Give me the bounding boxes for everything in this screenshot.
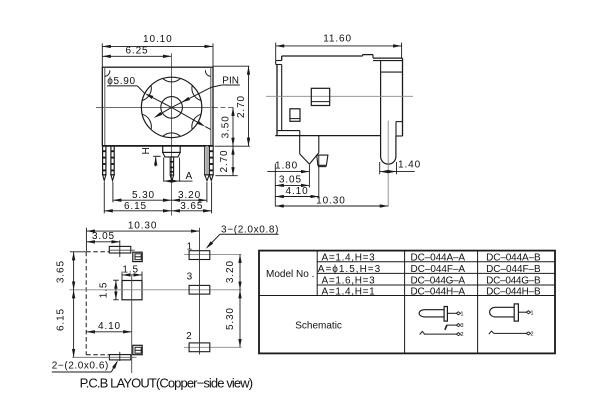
svg-text:3: 3: [460, 323, 464, 329]
svg-text:6.15: 6.15: [55, 308, 66, 331]
svg-text:DC–044G–B: DC–044G–B: [486, 275, 541, 286]
svg-text:3.05: 3.05: [92, 231, 115, 242]
svg-text:P.C.B LAYOUT(Copper−side view): P.C.B LAYOUT(Copper−side view): [80, 375, 254, 390]
svg-text:6.15: 6.15: [124, 201, 147, 212]
svg-text:6.25: 6.25: [125, 46, 148, 57]
svg-text:5.30: 5.30: [225, 307, 236, 330]
svg-text:2.70: 2.70: [236, 95, 247, 118]
svg-text:2: 2: [186, 331, 192, 342]
svg-text:A=1.4,H=3: A=1.4,H=3: [322, 252, 376, 263]
svg-text:10.30: 10.30: [128, 220, 158, 231]
svg-text:A=1.6,H=3: A=1.6,H=3: [322, 275, 376, 286]
svg-text:3.20: 3.20: [178, 190, 201, 201]
svg-text:3.50: 3.50: [220, 115, 231, 138]
svg-text:Schematic: Schematic: [295, 320, 342, 331]
svg-text:2.70: 2.70: [219, 149, 230, 172]
svg-text:DC–044H–A: DC–044H–A: [411, 286, 466, 297]
svg-text:DC–044F–B: DC–044F–B: [486, 264, 541, 275]
svg-text:2−(2.0x0.6): 2−(2.0x0.6): [52, 361, 109, 372]
svg-text:DC–044A–B: DC–044A–B: [486, 252, 541, 263]
svg-text:1.40: 1.40: [398, 159, 421, 170]
svg-text:1: 1: [460, 311, 464, 317]
svg-text:DC–044A–A: DC–044A–A: [411, 252, 466, 263]
svg-text:DC–044F–A: DC–044F–A: [411, 264, 466, 275]
svg-text:10.30: 10.30: [316, 195, 346, 206]
svg-text:3.20: 3.20: [225, 260, 236, 283]
svg-text:3.65: 3.65: [180, 201, 203, 212]
svg-text:4.10: 4.10: [286, 186, 309, 197]
svg-text:Model No .: Model No .: [266, 269, 314, 280]
svg-text:PIN: PIN: [222, 75, 239, 86]
svg-text:1.80: 1.80: [275, 161, 298, 172]
svg-text:5.30: 5.30: [132, 190, 155, 201]
svg-text:H: H: [141, 147, 152, 154]
svg-text:DC–044G–A: DC–044G–A: [411, 275, 466, 286]
svg-text:2: 2: [530, 332, 534, 338]
svg-text:4.10: 4.10: [98, 321, 121, 332]
svg-text:A=1.4,H=1: A=1.4,H=1: [322, 286, 376, 297]
svg-text:A: A: [185, 171, 192, 182]
svg-text:3: 3: [187, 272, 193, 283]
svg-text:1.5: 1.5: [99, 282, 110, 299]
svg-text:11.60: 11.60: [323, 34, 352, 45]
svg-text:A=ϕ1.5,H=3: A=ϕ1.5,H=3: [318, 264, 381, 275]
svg-text:3.65: 3.65: [55, 260, 66, 283]
svg-text:1.5: 1.5: [122, 265, 139, 276]
svg-text:3.05: 3.05: [279, 175, 302, 186]
svg-text:DC–044H–B: DC–044H–B: [486, 286, 541, 297]
svg-text:2: 2: [460, 332, 464, 338]
svg-text:1: 1: [187, 241, 193, 252]
svg-text:1: 1: [530, 310, 534, 316]
svg-text:10.10: 10.10: [143, 34, 173, 45]
